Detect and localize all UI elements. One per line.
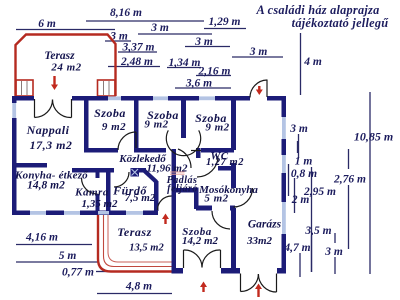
padlas hatch icon — [131, 168, 140, 177]
svg-text:10,85 m: 10,85 m — [354, 130, 393, 144]
svg-text:1,27 m2: 1,27 m2 — [206, 157, 244, 168]
svg-text:2,48 m: 2,48 m — [120, 56, 153, 68]
szoba2|szoba3 wall — [181, 99, 186, 138]
svg-text:9 m2: 9 m2 — [144, 119, 168, 131]
dim line 3,37 m — [118, 51, 157, 53]
nappali french doors — [34, 99, 36, 118]
kamra right / furdo left wall — [106, 170, 111, 212]
dim line 5 m — [16, 261, 98, 263]
konyha top wall — [72, 168, 114, 173]
svg-text:4,16 m: 4,16 m — [25, 232, 58, 244]
wc door — [197, 156, 218, 177]
garage double doors — [240, 274, 242, 292]
dim line 4,8 m — [97, 293, 172, 295]
mosokonyha bottom wall — [196, 206, 212, 211]
svg-text:2,16 m: 2,16 m — [198, 66, 231, 78]
dim line 2 m vertical — [294, 178, 296, 213]
svg-text:Nappali: Nappali — [26, 123, 70, 137]
dim line 2,16 m b vertical — [348, 149, 350, 169]
wc left wall — [196, 148, 201, 158]
dim line 3 m b — [105, 40, 131, 42]
svg-text:3 m: 3 m — [150, 22, 169, 34]
svg-text:Terasz: Terasz — [117, 225, 152, 239]
svg-text:4,7 m: 4,7 m — [283, 242, 310, 254]
furdo right wall — [154, 181, 159, 211]
dim line 4m/3m vertical right — [300, 33, 302, 95]
svg-text:Kamra: Kamra — [74, 187, 109, 199]
svg-text:4,8 m: 4,8 m — [125, 281, 152, 293]
svg-text:14,8 m2: 14,8 m2 — [27, 180, 65, 192]
furdo top wall — [138, 168, 146, 173]
room labels — [14, 50, 282, 254]
window top wall 3 — [199, 96, 215, 100]
door arcs — [35, 80, 277, 293]
dim line 3 m vertical f — [334, 233, 336, 243]
svg-text:24 m2: 24 m2 — [50, 62, 81, 74]
dim line 3,6 m — [175, 87, 231, 89]
svg-text:3 m: 3 m — [289, 123, 308, 135]
right wall — [282, 96, 287, 117]
dim line 3 m top — [138, 33, 212, 35]
arrow terrace->nappali (down) — [51, 76, 58, 90]
arrow garage (up) — [255, 284, 262, 298]
window furdo bottom — [126, 211, 143, 215]
dim line 0,77 m — [96, 271, 108, 273]
svg-text:33m2: 33m2 — [246, 235, 273, 247]
top wall segments — [12, 96, 34, 101]
svg-text:1,29 m: 1,29 m — [209, 16, 241, 28]
padlas stairs hatch — [170, 172, 185, 174]
szoba4 double doors — [183, 250, 185, 268]
dim line 2,16 m — [196, 75, 231, 77]
dim line 3 m c — [185, 46, 230, 48]
bottom-right wall — [172, 268, 183, 274]
svg-text:5 m: 5 m — [59, 250, 77, 262]
svg-text:6 m: 6 m — [38, 18, 56, 30]
svg-text:9 m2: 9 m2 — [102, 121, 126, 133]
arrow szoba4 (up) — [200, 282, 207, 293]
svg-text:13,5 m2: 13,5 m2 — [129, 243, 164, 254]
padlas nook bottom wall — [175, 188, 196, 193]
terrace 1 outline (top-left) — [16, 35, 116, 97]
svg-text:14,2 m2: 14,2 m2 — [182, 235, 219, 247]
svg-text:4 m: 4 m — [303, 56, 322, 68]
left wall — [12, 96, 17, 103]
szoba1|szoba2 wall — [134, 99, 139, 153]
svg-text:feljáró: feljáró — [167, 184, 198, 195]
svg-text:2,76 m: 2,76 m — [333, 174, 366, 186]
dim line 1 m vertical — [297, 141, 299, 153]
red arrows — [51, 76, 263, 297]
window left wall — [12, 103, 16, 118]
windows right wall — [282, 117, 286, 139]
svg-text:1 m: 1 m — [295, 156, 313, 168]
mosokonyha left wall — [194, 188, 199, 210]
dim line 2,48 m — [108, 66, 160, 68]
kamra door — [82, 178, 98, 194]
dim line 4,7 m vertical — [299, 253, 301, 277]
mosokonyha bottom door — [212, 211, 230, 229]
dim line 8,16 m — [86, 20, 204, 22]
mosokonyha right door — [234, 188, 253, 207]
svg-text:0,8 m: 0,8 m — [291, 168, 317, 180]
terrace 2 outline (bottom) — [98, 215, 172, 272]
dim line 1,29 m — [204, 28, 246, 30]
dim line 3,5 m vertical — [311, 236, 313, 272]
svg-text:3,6 m: 3,6 m — [185, 78, 212, 90]
svg-text:11,96 m2: 11,96 m2 — [147, 163, 188, 175]
windows (light blue) — [12, 96, 286, 234]
dim line 1,34 m — [167, 67, 201, 69]
svg-text:3,5 m: 3,5 m — [304, 225, 331, 237]
dim line 4,16 m — [16, 244, 92, 246]
svg-text:5 m2: 5 m2 — [204, 193, 228, 205]
terrace 1 stairs right — [98, 80, 116, 96]
terrace door arc nook — [158, 196, 172, 210]
windows konyha bottom — [30, 211, 46, 215]
dim line 2,95 m vertical — [311, 167, 313, 272]
svg-text:tájékoztató jellegű: tájékoztató jellegű — [292, 16, 390, 30]
window top wall 2 — [153, 96, 168, 100]
szoba1 door — [135, 132, 137, 148]
svg-text:17,3 m2: 17,3 m2 — [30, 138, 73, 152]
kamra left wall — [96, 170, 100, 178]
svg-text:3 m: 3 m — [249, 46, 268, 58]
arrow entrance (down) — [256, 86, 263, 95]
svg-text:3,37 m: 3,37 m — [122, 42, 155, 54]
dim line 6 m — [16, 29, 115, 31]
entrance door arc — [266, 80, 268, 98]
svg-text:Terasz: Terasz — [44, 50, 75, 62]
furdo door — [114, 172, 129, 187]
terrace 1 stairs left — [16, 80, 33, 96]
svg-text:3 m: 3 m — [324, 246, 343, 258]
door sill line — [191, 150, 201, 152]
svg-text:1,35 m2: 1,35 m2 — [81, 198, 118, 210]
svg-text:9 m2: 9 m2 — [205, 122, 229, 134]
svg-text:A családi ház alaprajza: A családi ház alaprajza — [256, 3, 380, 17]
arrow terrace2 (up) — [162, 214, 169, 225]
szoba4 left wall — [172, 149, 177, 274]
svg-text:7,5 m2: 7,5 m2 — [125, 192, 156, 204]
padlas door arc — [178, 149, 191, 168]
svg-text:8,16 m: 8,16 m — [110, 7, 142, 19]
svg-text:0,77 m: 0,77 m — [62, 267, 94, 279]
konyha bottom wall — [12, 211, 30, 216]
mid horizontal wall — [84, 148, 118, 153]
svg-text:Garázs: Garázs — [248, 219, 282, 231]
dim line 3 m d — [232, 56, 283, 58]
wc bottom wall — [218, 166, 235, 171]
window top wall 1 — [108, 96, 121, 100]
svg-text:1,34 m: 1,34 m — [169, 57, 201, 69]
dim line 10,85 m vertical — [369, 92, 371, 274]
nappali|szoba1 wall — [84, 99, 89, 153]
svg-text:2,95 m: 2,95 m — [303, 186, 336, 198]
dim line 0,8 m vertical — [288, 164, 290, 196]
furdo chamfer — [142, 168, 159, 184]
walls (navy) — [12, 96, 286, 274]
nappali bottom wall — [12, 163, 47, 168]
szoba2+szoba3 doors pacman — [166, 130, 200, 155]
garage left wall — [231, 99, 236, 150]
svg-text:3 m: 3 m — [194, 36, 213, 48]
svg-text:Szoba: Szoba — [94, 106, 126, 120]
